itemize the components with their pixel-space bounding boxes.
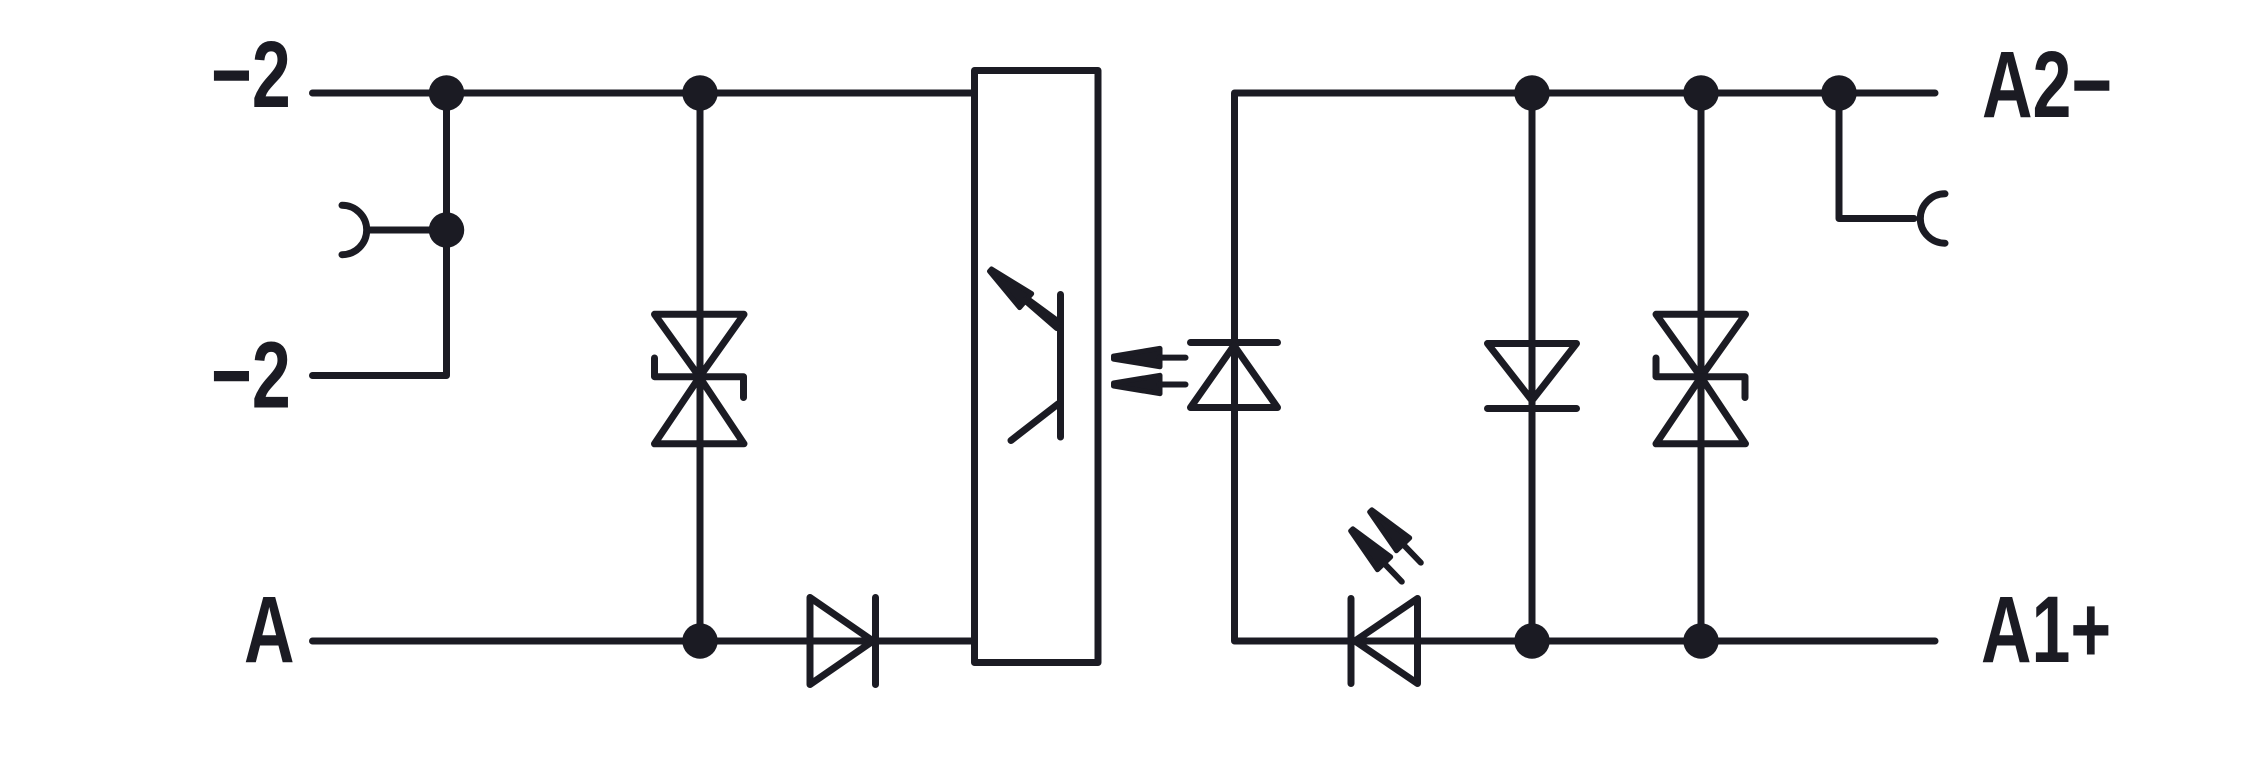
photodiode D2 triangle <box>1191 346 1278 408</box>
diode D3 cathode bar <box>1488 405 1577 412</box>
transistor Q1 emitter line <box>1011 404 1058 441</box>
light arrow into Q1 lower <box>1114 375 1186 393</box>
wire A2 socket branch <box>1839 93 1914 219</box>
suppressor TVS1 zener band <box>655 358 744 398</box>
suppressor TVS2 zener band <box>1656 358 1745 398</box>
wire TVS1 vertical branch <box>697 93 704 641</box>
wire mid-left branch with vertical to top rail <box>313 93 447 376</box>
diode D3 triangle <box>1488 344 1577 401</box>
socket connector left <box>342 205 367 254</box>
suppressor TVS2 bottom triangle <box>1656 377 1746 444</box>
junction top rail at node 447 <box>429 75 465 111</box>
junction socket stub <box>429 212 465 248</box>
wire top-left rail <box>313 90 975 97</box>
diode D1 triangle <box>810 598 873 685</box>
svg-text:A: A <box>244 577 295 683</box>
transistor Q1 collector line <box>1028 300 1058 322</box>
junction A1 rail at node 1532 <box>1514 623 1550 659</box>
wire right loop (A2 top rail, input vertical, A1 bottom rail) <box>1235 93 1936 641</box>
suppressor TVS1 top triangle <box>655 314 745 377</box>
junction bottom rail at node 700 <box>682 623 718 659</box>
light arrow into Q1 upper <box>1114 348 1186 366</box>
socket connector right <box>1920 194 1945 243</box>
svg-text:A1+: A1+ <box>1981 577 2111 683</box>
optocoupler U1 box <box>975 71 1099 663</box>
junction top rail at node 700 <box>682 75 718 111</box>
svg-text:−2: −2 <box>211 22 291 128</box>
junction A1 rail at node 1701 <box>1683 623 1719 659</box>
LED D4 emission arrow left <box>1345 523 1408 588</box>
transistor Q1 base bar <box>1057 295 1064 438</box>
LED D4 cathode bar <box>1348 599 1355 684</box>
svg-text:A2−: A2− <box>1982 32 2112 138</box>
LED D4 emission arrow right <box>1364 504 1427 569</box>
suppressor TVS2 top triangle <box>1656 314 1746 377</box>
LED D4 triangle <box>1355 599 1418 684</box>
junction A2 rail at node 1532 <box>1514 75 1550 111</box>
suppressor TVS1 bottom triangle <box>655 377 745 444</box>
junction A2 rail at node 1839 <box>1821 75 1857 111</box>
diode D1 cathode bar <box>872 598 879 685</box>
svg-text:−2: −2 <box>211 322 291 428</box>
wire diode D3 vertical branch <box>1529 93 1536 641</box>
wire TVS2 vertical branch <box>1698 93 1705 641</box>
junction A2 rail at node 1701 <box>1683 75 1719 111</box>
photodiode D2 cathode bar <box>1191 339 1278 346</box>
wire bottom-left rail <box>313 638 975 645</box>
transistor Q1 collector arrow <box>984 263 1062 335</box>
wire stub to left socket <box>369 227 447 234</box>
